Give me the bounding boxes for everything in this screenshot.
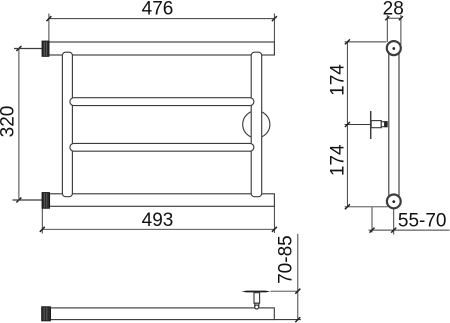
bottom view: bar bottom edge extension <box>274 319 301 321</box>
dimension 55-70 tick right <box>391 228 396 233</box>
bottom view: wall bracket plate <box>242 291 271 293</box>
dimension 476 line <box>49 18 275 20</box>
bottom view: bracket neck <box>255 303 259 305</box>
dimension 493 tick left <box>40 227 45 232</box>
svg-text:320: 320 <box>0 106 19 138</box>
side view: dark connector nut <box>385 121 388 127</box>
bottom bar (collector) <box>50 194 275 207</box>
dimension 320 tick top <box>16 46 21 51</box>
dimension 174 connector bottom <box>345 206 388 208</box>
bottom supply stub pipe <box>13 199 43 201</box>
dimension 174 chain line <box>346 42 348 207</box>
svg-text:55-70: 55-70 <box>398 210 447 231</box>
svg-text:493: 493 <box>142 210 174 231</box>
dimension 476 extension line left <box>48 14 50 42</box>
dimension 174 tick top <box>345 39 350 44</box>
bottom view: bracket stem <box>254 293 260 304</box>
dimension 174 tick bottom <box>345 204 350 209</box>
svg-text:174: 174 <box>328 144 349 176</box>
side view: vertical tube <box>389 48 399 202</box>
dimension 55-70 line <box>369 229 450 231</box>
dimension 28 extension right <box>400 15 402 45</box>
dimension 70-85 plate connector <box>271 290 298 292</box>
side view: bottom mount circle <box>387 195 401 209</box>
top supply stub pipe <box>14 48 42 50</box>
dimension 28 tick right <box>399 16 403 20</box>
svg-text:28: 28 <box>383 0 404 19</box>
dimension 70-85 tick top <box>295 289 300 294</box>
rung 1 <box>70 98 254 106</box>
dimension 174 tick middle <box>345 122 350 127</box>
dimension 55-70 extension right <box>393 208 395 235</box>
dimension 493 line <box>42 228 274 230</box>
dimension 28 extension left <box>386 15 388 42</box>
bottom fitting (union nut) <box>42 193 50 209</box>
side view: bottom mount center dot <box>392 200 395 203</box>
dimension 476 tick right <box>272 16 277 21</box>
dimension 55-70 tick left <box>370 228 375 233</box>
dimension 174 connector middle <box>345 124 371 126</box>
rung 2 <box>70 143 254 151</box>
dimension 174 connector top <box>345 41 387 43</box>
dimension 476 extension line right <box>273 14 275 42</box>
thermostat circle on right tube <box>243 111 270 138</box>
dimension 320 tick bottom <box>16 198 21 203</box>
dimension 320 line <box>18 49 20 201</box>
bottom view: rail bar <box>50 308 274 320</box>
dimension 476 tick left <box>46 16 51 21</box>
svg-text:174: 174 <box>328 64 349 96</box>
dimension 28 tick left <box>385 16 389 20</box>
dimension 28 line <box>387 17 401 19</box>
svg-text:70-85: 70-85 <box>276 235 297 284</box>
dimension 493 extension line left <box>41 209 43 234</box>
side view: pipe step <box>381 122 384 127</box>
dimension 493 tick right <box>272 227 277 232</box>
bottom view: dark end cap <box>42 307 51 321</box>
dimension 70-85 line <box>297 234 299 320</box>
right vertical tube <box>251 52 262 197</box>
svg-text:476: 476 <box>142 0 174 20</box>
side view: top mount center dot <box>392 47 395 50</box>
dimension 55-70 extension left <box>371 207 373 232</box>
side view: top mount circle <box>387 41 401 55</box>
left vertical tube <box>62 52 72 197</box>
dimension 493 extension line right <box>273 206 275 233</box>
bottom view: bracket knob <box>255 305 259 309</box>
top fitting (union nut) <box>42 41 49 56</box>
dimension 70-85 tick bottom <box>295 317 300 322</box>
top bar (collector) <box>49 42 275 55</box>
side view: mid wall flange <box>370 111 372 139</box>
side view: inlet pipe <box>371 121 381 128</box>
